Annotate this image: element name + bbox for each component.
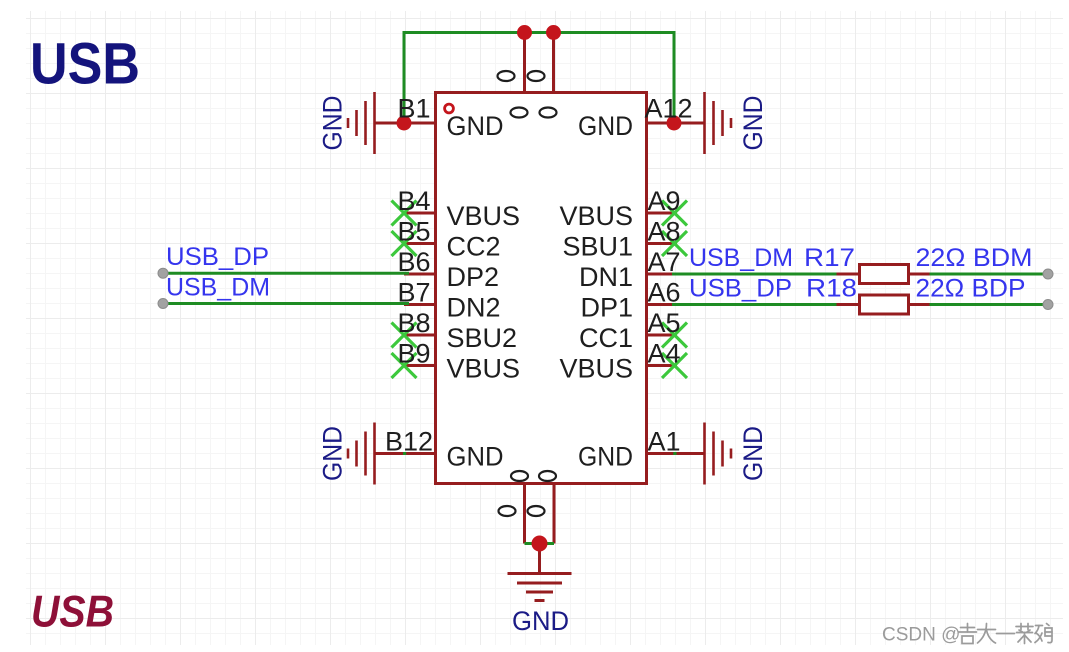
svg-text:USB_DM: USB_DM	[166, 274, 270, 302]
svg-text:B8: B8	[397, 308, 430, 338]
svg-text:CC1: CC1	[579, 323, 633, 353]
svg-text:A8: A8	[648, 217, 681, 247]
svg-text:A7: A7	[648, 247, 681, 277]
svg-text:DN1: DN1	[579, 262, 633, 292]
svg-text:USB_DP: USB_DP	[166, 243, 269, 271]
svg-text:GND: GND	[578, 442, 633, 472]
svg-text:B5: B5	[397, 217, 430, 247]
svg-text:A5: A5	[648, 308, 681, 338]
svg-text:B4: B4	[397, 186, 430, 216]
svg-text:GND: GND	[447, 442, 504, 472]
svg-text:GND: GND	[512, 606, 569, 636]
svg-text:B12: B12	[385, 427, 433, 457]
svg-text:USB: USB	[31, 588, 114, 637]
svg-text:22Ω BDM: 22Ω BDM	[916, 244, 1033, 272]
svg-text:B7: B7	[397, 278, 430, 308]
svg-text:A9: A9	[648, 186, 681, 216]
svg-text:R18: R18	[806, 275, 857, 303]
svg-text:VBUS: VBUS	[559, 201, 633, 231]
svg-text:VBUS: VBUS	[447, 201, 521, 231]
svg-text:B6: B6	[397, 247, 430, 277]
svg-text:GND: GND	[318, 426, 348, 481]
svg-text:GND: GND	[578, 111, 633, 141]
svg-text:VBUS: VBUS	[559, 354, 633, 384]
svg-text:GND: GND	[447, 111, 504, 141]
svg-text:VBUS: VBUS	[447, 354, 521, 384]
svg-text:DP1: DP1	[580, 293, 633, 323]
svg-text:USB: USB	[30, 32, 140, 97]
svg-text:SBU1: SBU1	[562, 232, 633, 262]
svg-text:CC2: CC2	[447, 232, 501, 262]
svg-text:SBU2: SBU2	[447, 323, 518, 353]
svg-text:USB_DM: USB_DM	[689, 244, 793, 272]
svg-text:CSDN @: CSDN @	[882, 625, 960, 646]
svg-text:GND: GND	[318, 96, 348, 151]
svg-text:B9: B9	[397, 339, 430, 369]
svg-text:USB_DP: USB_DP	[689, 275, 792, 303]
svg-text:R17: R17	[804, 244, 855, 272]
svg-text:GND: GND	[738, 96, 768, 151]
svg-text:DP2: DP2	[447, 262, 500, 292]
svg-text:22Ω BDP: 22Ω BDP	[916, 275, 1026, 303]
svg-text:A4: A4	[648, 339, 681, 369]
svg-text:A6: A6	[648, 278, 681, 308]
svg-text:GND: GND	[738, 426, 768, 481]
svg-text:DN2: DN2	[447, 293, 501, 323]
svg-text:B1: B1	[397, 94, 430, 124]
svg-text:A12: A12	[645, 94, 693, 124]
svg-text:A1: A1	[648, 427, 681, 457]
